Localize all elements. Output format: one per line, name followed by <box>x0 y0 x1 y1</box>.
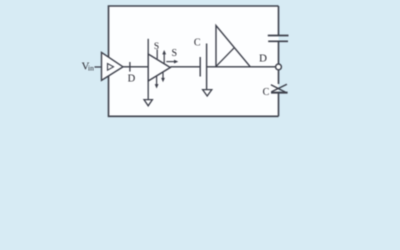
wire: S label stub into amplifier <box>156 50 158 59</box>
svg-text:S: S <box>172 48 178 59</box>
ground <box>203 90 212 96</box>
svg-text:in: in <box>88 63 94 72</box>
capacitor C plate / ground branch <box>206 44 208 90</box>
arrow down 1 (through amplifier bottom edge) <box>156 76 158 85</box>
capacitor C (bottom right, crossed-plate symbol) <box>271 85 286 93</box>
svg-text:S: S <box>154 42 159 52</box>
wire: capacitor to output node <box>207 66 276 68</box>
capacitor (top right, in series) <box>268 35 289 37</box>
svg-text:C: C <box>263 87 270 98</box>
svg-text:D: D <box>259 53 267 65</box>
switch tick D <box>129 62 131 72</box>
ground <box>144 100 152 106</box>
arrow right (sampling direction) <box>166 61 175 63</box>
op-amp U2 (sampling amplifier) <box>148 54 170 81</box>
wire: right edge bottom segment <box>278 93 280 117</box>
wire: right edge top segment <box>278 6 280 36</box>
wire: S control line / ground stem <box>147 39 149 100</box>
capacitor C plate (tick on wire) <box>199 57 201 77</box>
op-amp U1 (input buffer) <box>102 52 124 80</box>
wire: right edge, node to capacitor C symbol <box>278 70 280 84</box>
wire: right edge, capacitor to output node <box>278 41 280 64</box>
svg-text:D: D <box>128 74 136 85</box>
arrow down 2 <box>162 72 164 79</box>
circuit box border (top, left, bottom sides) <box>109 6 279 116</box>
wire: amplifier to hold capacitor <box>170 66 200 68</box>
op-amp U3 (output amplifier, right-triangle symbol) <box>216 26 250 67</box>
svg-text:C: C <box>194 37 201 48</box>
circuit box interior <box>109 6 279 116</box>
node: output circle <box>276 64 282 70</box>
wire: Vin to input buffer <box>95 66 102 68</box>
wire: buffer to amplifier <box>123 66 148 68</box>
arrow up (through amplifier top edge) <box>163 53 165 63</box>
